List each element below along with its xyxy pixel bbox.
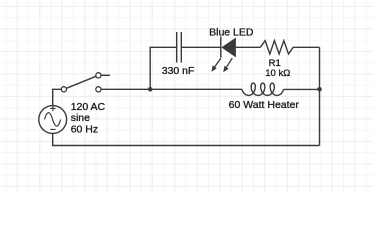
svg-text:330 nF: 330 nF bbox=[162, 65, 195, 77]
svg-text:60 Watt Heater: 60 Watt Heater bbox=[229, 99, 300, 111]
svg-text:120 AC: 120 AC bbox=[71, 101, 106, 113]
svg-text:Blue LED: Blue LED bbox=[209, 26, 254, 38]
svg-text:60 Hz: 60 Hz bbox=[71, 123, 98, 135]
svg-text:sine: sine bbox=[71, 112, 90, 124]
svg-text:10 kΩ: 10 kΩ bbox=[265, 68, 290, 79]
